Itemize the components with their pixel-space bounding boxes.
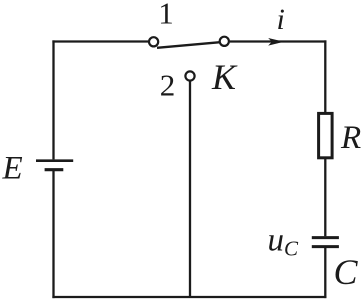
svg-text:C: C <box>334 252 359 292</box>
svg-text:2: 2 <box>160 67 176 102</box>
switch pole circle K <box>220 37 229 46</box>
wire bottom horizontal <box>52 296 326 298</box>
wire left vertical lower <box>52 171 54 298</box>
battery E plate short negative <box>45 168 64 171</box>
resistor R body <box>319 113 333 157</box>
wire middle vertical from contact 2 <box>189 81 191 297</box>
svg-text:i: i <box>277 3 285 36</box>
capacitor C plate bottom <box>312 245 339 248</box>
wire right vertical resistor to capacitor <box>324 159 326 237</box>
capacitor C plate top <box>312 236 339 239</box>
svg-text:E: E <box>2 150 23 186</box>
wire top-right horizontal with current direction <box>230 40 327 42</box>
switch blade arm <box>157 42 220 48</box>
wire right vertical above resistor <box>324 40 326 113</box>
switch contact circle 1 <box>149 37 158 46</box>
svg-text:R: R <box>340 120 361 156</box>
wire right vertical below capacitor <box>324 248 326 298</box>
battery E plate long positive <box>36 159 73 162</box>
wire top-left horizontal <box>52 40 148 42</box>
svg-text:1: 1 <box>158 0 174 30</box>
switch contact circle 2 <box>185 71 194 80</box>
current arrowhead i <box>268 38 284 46</box>
svg-text:K: K <box>211 57 238 97</box>
wire left vertical upper <box>52 40 54 159</box>
